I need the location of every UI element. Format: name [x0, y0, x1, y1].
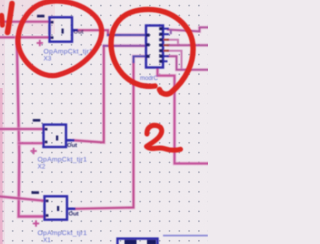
wire: U6 bottom feed down-right-down to right edge at y=163.5 — [158, 69, 209, 164]
wire: U6 right pin5 down join pin6 wire — [168, 51, 182, 70]
wire: X1 inverting input from left edge — [0, 197, 45, 201]
partial IC at bottom edge — [118, 239, 158, 244]
op-amp X1 body — [45, 196, 76, 219]
annotation circle 1 around X3 — [18, 1, 102, 76]
right pin stubs — [164, 28, 170, 30]
wire: X3 inverting input from left edge — [0, 20, 50, 24]
partial component edge bottom right (thin blue line) — [163, 235, 208, 237]
wire: branch to X2 + input at y=143 — [19, 141, 44, 145]
right pin pads — [159, 27, 162, 30]
plus polarity mark X1 — [33, 220, 39, 226]
plus polarity mark X2 — [30, 148, 36, 154]
wire: X2 inverting input from left edge — [0, 127, 44, 131]
minus polarity mark X3 — [37, 15, 45, 18]
IC X6 body — [146, 26, 169, 68]
annotation digit 1 — [8, 4, 13, 33]
wire: U6 right pin4 straight to right edge — [168, 43, 208, 47]
wire: U6 right pin6 to right edge at y=70 — [168, 56, 208, 70]
left pin pads — [146, 34, 149, 37]
wire: X3 non-inverting input from left edge with junction node — [0, 35, 50, 39]
red mark left edge — [0, 16, 5, 26]
wire: U6 right pin2 short vertical joining pin1 wire — [170, 30, 172, 34]
wire: X2 output up to U6 pin2 — [74, 46, 146, 143]
minus polarity mark X2 — [33, 119, 41, 122]
wire: U6 right pin3 to step down join pin4 wire — [168, 40, 178, 46]
subtle photo grain — [0, 0, 1, 1]
annotation digit 2 — [147, 125, 181, 150]
plus polarity mark X3 — [37, 40, 43, 46]
pink photo tint left edge — [0, 0, 5, 244]
wire: U6 right pin1 to right edge with step up at x=199.5 — [168, 27, 208, 31]
op-amp X3 body — [50, 17, 79, 41]
wire: X3 output to U6 pin1 with jog at x=108 — [77, 30, 146, 35]
minus polarity mark X1 — [32, 191, 40, 194]
op-amp X2 body — [44, 125, 75, 147]
annotation circle 2 around X6 — [111, 9, 193, 94]
wire: long vertical bus x=17.5 from node at (17,37.4) down to X1 + input — [17, 37, 45, 216]
wire: X1 output up to U6 pin3 — [76, 56, 146, 209]
